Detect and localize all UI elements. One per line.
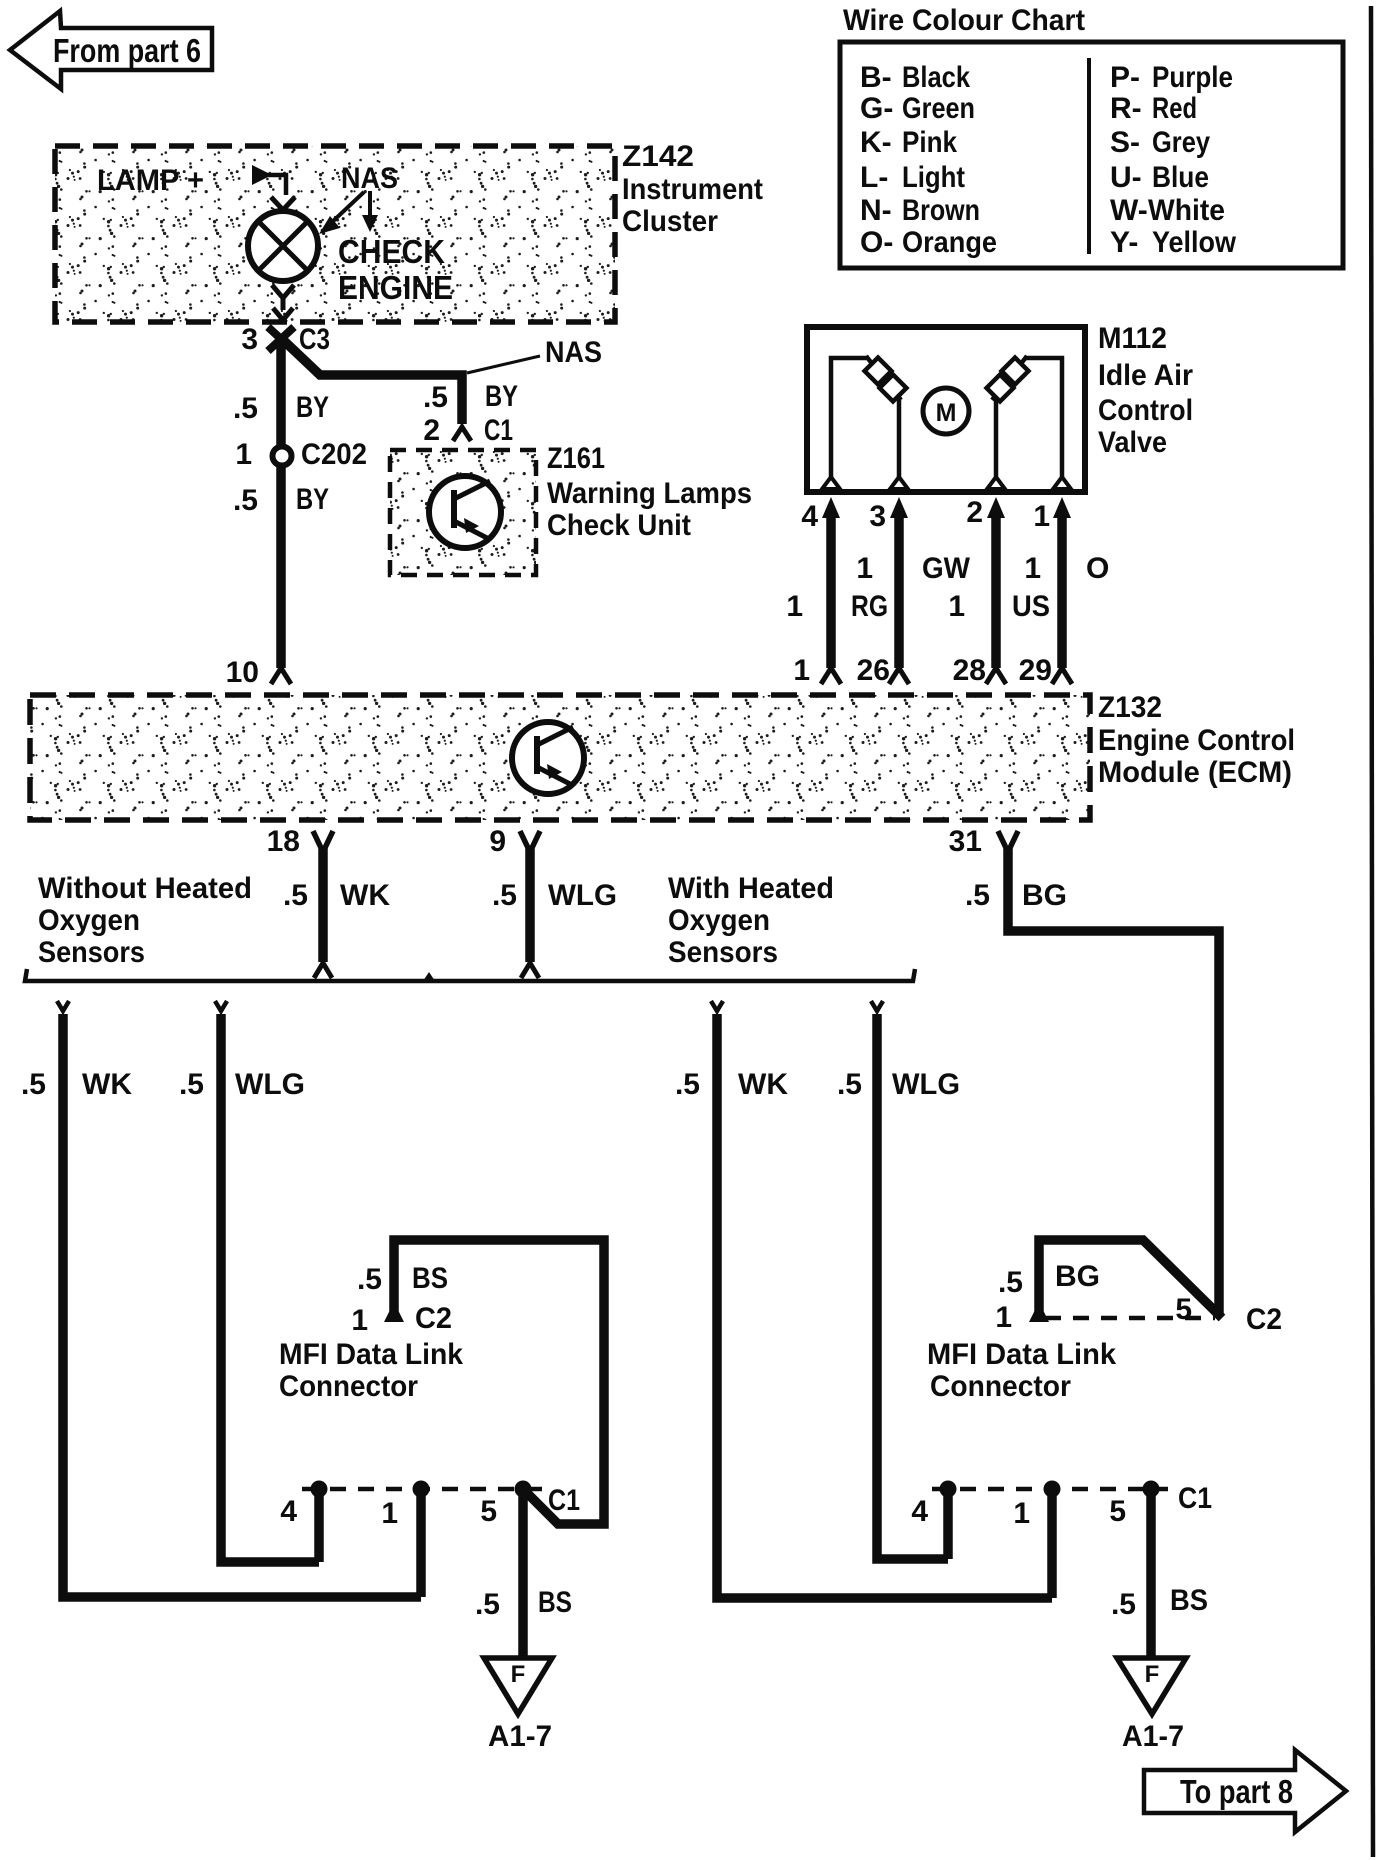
svg-text:M: M	[936, 399, 957, 427]
svg-text:Idle Air: Idle Air	[1098, 359, 1193, 392]
connector C202 pin 1	[235, 438, 367, 471]
svg-text:WLG: WLG	[548, 879, 617, 912]
svg-text:29: 29	[1019, 654, 1052, 687]
C1 left pin 4	[280, 1481, 327, 1563]
C1 right pin 1	[1013, 1481, 1060, 1599]
label MFI Data Link Connector (left)	[279, 1338, 463, 1403]
svg-text:White: White	[1148, 194, 1225, 227]
svg-text:Black: Black	[902, 61, 970, 94]
svg-text:Sensors: Sensors	[38, 936, 145, 969]
label 2 C1	[423, 414, 513, 447]
svg-text:S-: S-	[1110, 126, 1140, 159]
svg-text:CHECK: CHECK	[338, 233, 445, 270]
svg-text:9: 9	[489, 825, 506, 858]
svg-text:C202: C202	[301, 438, 367, 471]
wire size labels M112 row1	[856, 552, 1109, 585]
svg-text:Module (ECM): Module (ECM)	[1098, 756, 1292, 789]
idle air control valve M112 box	[807, 322, 1193, 492]
svg-text:1: 1	[351, 1304, 368, 1337]
svg-text:.5: .5	[998, 1266, 1023, 1299]
svg-text:BY: BY	[485, 380, 518, 413]
wire size labels M112 row2	[786, 590, 1050, 623]
svg-text:.5: .5	[475, 1588, 500, 1621]
label .5 WK (pin18)	[283, 879, 390, 912]
svg-text:Without Heated: Without Heated	[38, 872, 252, 905]
ECM pin 31	[949, 825, 1018, 858]
label .5 WK (right)	[675, 1068, 788, 1101]
svg-text:ENGINE: ENGINE	[338, 269, 453, 306]
wire O pin1 M112 to ECM pin29	[1052, 497, 1072, 684]
svg-text:18: 18	[267, 825, 300, 858]
svg-text:Control: Control	[1098, 394, 1193, 427]
svg-text:O: O	[1086, 552, 1109, 585]
svg-text:26: 26	[857, 654, 890, 687]
svg-text:.5: .5	[179, 1068, 204, 1101]
svg-text:C2: C2	[1246, 1303, 1282, 1336]
svg-text:A1-7: A1-7	[1122, 1720, 1184, 1753]
svg-text:4: 4	[911, 1495, 928, 1528]
label .5 BS (left)	[475, 1586, 572, 1621]
transistor symbol ECM	[512, 722, 584, 794]
C1 left pin 1	[381, 1481, 429, 1598]
svg-text:B-: B-	[860, 61, 892, 94]
engine control module Z132 box	[30, 691, 1295, 820]
svg-text:Red: Red	[1152, 92, 1197, 125]
svg-text:.5: .5	[357, 1263, 382, 1296]
svg-text:3: 3	[241, 323, 258, 356]
connector pin 1 C2 (left)	[351, 1302, 452, 1337]
M112 bottom pin notches	[822, 477, 1071, 489]
svg-text:BS: BS	[412, 1262, 448, 1295]
svg-text:BG: BG	[1022, 879, 1067, 912]
svg-text:Z142: Z142	[622, 140, 694, 173]
svg-text:WK: WK	[82, 1068, 132, 1101]
wire branch BY to NAS C1	[281, 338, 462, 424]
svg-text:K-: K-	[860, 126, 892, 159]
svg-text:Purple: Purple	[1152, 61, 1233, 94]
svg-text:1: 1	[381, 1497, 398, 1530]
svg-text:BS: BS	[538, 1586, 572, 1619]
label MFI Data Link Connector (right)	[927, 1338, 1116, 1403]
svg-text:1: 1	[1024, 552, 1041, 585]
label .5 BG (pin31)	[965, 879, 1067, 912]
svg-text:RG: RG	[851, 590, 888, 623]
svg-text:L-: L-	[860, 161, 888, 194]
svg-text:Blue: Blue	[1152, 161, 1209, 194]
svg-text:Connector: Connector	[279, 1370, 418, 1403]
wire GW pin3 M112 to ECM pin26	[889, 497, 909, 684]
svg-text:BY: BY	[296, 483, 329, 516]
ECM pin 10	[226, 656, 291, 689]
svg-text:2: 2	[423, 414, 440, 447]
svg-text:2: 2	[966, 496, 983, 529]
label NAS callout	[467, 336, 602, 373]
svg-text:Engine Control: Engine Control	[1098, 724, 1295, 757]
svg-text:Z132: Z132	[1098, 691, 1162, 724]
ECM pin 9	[489, 825, 540, 858]
wire RG pin4 M112 to ECM pin1	[821, 497, 841, 684]
svg-text:1: 1	[786, 590, 803, 623]
wire WLG left drop	[215, 1001, 319, 1562]
svg-text:Cluster: Cluster	[622, 205, 718, 238]
svg-text:Warning Lamps: Warning Lamps	[547, 477, 752, 510]
connector C1 right dashed strip	[932, 1487, 1168, 1492]
svg-text:1: 1	[793, 654, 810, 687]
svg-text:U-: U-	[1110, 161, 1142, 194]
connector pin 1 C2 (right)	[995, 1293, 1282, 1336]
transistor symbol Z161	[429, 476, 501, 548]
svg-text:MFI Data Link: MFI Data Link	[279, 1338, 463, 1371]
label .5 BG (right C2)	[998, 1260, 1100, 1299]
warning lamps check unit Z161 box	[390, 442, 752, 575]
wire BS loop left connector	[384, 1240, 604, 1524]
wire BG loop right connector	[1029, 1240, 1222, 1322]
svg-text:With Heated: With Heated	[668, 872, 834, 905]
svg-text:Check Unit: Check Unit	[547, 509, 691, 542]
svg-text:.5: .5	[21, 1068, 46, 1101]
lamp CHECK ENGINE	[248, 211, 318, 281]
svg-text:5: 5	[1109, 1495, 1126, 1528]
svg-text:Oxygen: Oxygen	[668, 904, 770, 937]
svg-text:F: F	[511, 1661, 526, 1688]
svg-text:.5: .5	[837, 1068, 862, 1101]
M112 pin labels	[801, 496, 1050, 533]
svg-text:F: F	[1145, 1661, 1160, 1688]
connector C1 left dashed strip	[302, 1487, 545, 1492]
svg-text:C1: C1	[1178, 1482, 1212, 1515]
svg-text:From part 6: From part 6	[53, 32, 201, 69]
label .5 WLG (pin9)	[492, 879, 617, 912]
M112 internal winding left	[831, 356, 906, 483]
svg-text:GW: GW	[922, 552, 971, 585]
page right border line	[1371, 6, 1373, 1857]
svg-text:.5: .5	[965, 879, 990, 912]
wire WK left drop	[57, 1001, 421, 1597]
Wire Colour Chart	[840, 4, 1343, 268]
svg-text:G-: G-	[860, 92, 893, 125]
svg-text:1: 1	[235, 438, 252, 471]
instrument cluster Z142 box	[55, 140, 763, 322]
wire BY from C3 to ECM pin 10	[276, 338, 286, 668]
svg-text:WK: WK	[340, 879, 390, 912]
svg-text:Light: Light	[902, 161, 965, 194]
svg-text:P-: P-	[1110, 61, 1140, 94]
connector C3 pin 3	[241, 323, 330, 356]
C1 right pin 5	[1109, 1481, 1159, 1665]
svg-text:C1: C1	[484, 414, 513, 447]
wire from LAMP+ to lamp	[252, 165, 295, 210]
wire BG from ECM pin 31	[1008, 848, 1219, 1314]
svg-text:N-: N-	[860, 194, 892, 227]
ground triangle F right A1-7	[1117, 1658, 1186, 1753]
svg-text:WLG: WLG	[235, 1068, 305, 1101]
svg-text:Y-: Y-	[1110, 226, 1138, 259]
To part 8 arrow	[1144, 1750, 1346, 1832]
svg-text:Yellow: Yellow	[1152, 226, 1237, 259]
svg-text:W-: W-	[1110, 194, 1148, 227]
connector C2 right dashed strip	[1045, 1316, 1215, 1321]
label .5 WK (left)	[21, 1068, 132, 1101]
connector pin 2 C1 fork	[453, 427, 471, 441]
svg-text:Connector: Connector	[930, 1370, 1071, 1403]
svg-text:1: 1	[995, 1301, 1012, 1334]
wire WK from ECM pin 18	[314, 848, 332, 978]
svg-text:MFI Data Link: MFI Data Link	[927, 1338, 1116, 1371]
svg-text:Wire Colour Chart: Wire Colour Chart	[843, 4, 1085, 37]
C1 left pin 5	[480, 1481, 531, 1665]
svg-text:WLG: WLG	[892, 1068, 960, 1101]
svg-text:.5: .5	[283, 879, 308, 912]
svg-text:LAMP +: LAMP +	[97, 164, 204, 197]
label With Heated Oxygen Sensors	[668, 872, 834, 969]
label .5 BS (left C2)	[357, 1262, 448, 1296]
svg-text:Green: Green	[902, 92, 975, 125]
label .5 BY (upper)	[233, 391, 329, 425]
svg-text:Grey: Grey	[1152, 126, 1210, 159]
label Without Heated Oxygen Sensors	[38, 872, 252, 969]
svg-text:Instrument: Instrument	[622, 173, 763, 206]
svg-text:5: 5	[480, 1495, 497, 1528]
svg-text:Orange: Orange	[902, 226, 997, 259]
svg-text:31: 31	[949, 825, 982, 858]
svg-text:1: 1	[856, 552, 873, 585]
svg-text:4: 4	[801, 500, 818, 533]
svg-text:NAS: NAS	[341, 162, 398, 195]
NAS pointer arrows	[319, 191, 378, 234]
svg-text:.5: .5	[233, 484, 258, 517]
svg-text:R-: R-	[1110, 92, 1142, 125]
label .5 BY (lower)	[233, 483, 329, 517]
svg-text:.5: .5	[1111, 1588, 1136, 1621]
label .5 BY (branch)	[423, 380, 518, 414]
label .5 WLG (right)	[837, 1068, 960, 1101]
svg-text:3: 3	[869, 500, 886, 533]
svg-text:28: 28	[953, 654, 986, 687]
svg-text:Oxygen: Oxygen	[38, 904, 140, 937]
svg-text:4: 4	[280, 1495, 297, 1528]
svg-text:Brown: Brown	[902, 194, 980, 227]
From part 6 arrow	[10, 11, 212, 89]
C1 right pin 4	[911, 1481, 956, 1560]
svg-text:.5: .5	[423, 381, 448, 414]
svg-text:.5: .5	[492, 879, 517, 912]
svg-text:M112: M112	[1098, 322, 1167, 355]
ECM top pin labels	[793, 654, 1052, 687]
svg-text:Z161: Z161	[547, 442, 605, 475]
svg-text:To part 8: To part 8	[1180, 1773, 1293, 1810]
M112 internal winding right	[987, 356, 1062, 483]
label .5 BS (right)	[1111, 1584, 1208, 1621]
svg-text:NAS: NAS	[545, 336, 602, 369]
wire WLG right drop	[871, 1001, 948, 1559]
svg-text:Sensors: Sensors	[668, 936, 778, 969]
svg-text:BG: BG	[1055, 1260, 1100, 1293]
svg-text:.5: .5	[675, 1068, 700, 1101]
svg-text:BS: BS	[1170, 1584, 1208, 1617]
ground triangle F left A1-7	[484, 1658, 552, 1753]
wire US pin2 M112 to ECM pin28	[986, 497, 1006, 684]
svg-text:O-: O-	[860, 226, 893, 259]
svg-text:1: 1	[1013, 1497, 1030, 1530]
svg-text:US: US	[1012, 590, 1050, 623]
svg-text:C1: C1	[548, 1484, 580, 1517]
svg-text:Valve: Valve	[1098, 426, 1167, 459]
bracket line	[25, 969, 915, 981]
label .5 WLG (left)	[179, 1068, 305, 1101]
wire WLG from ECM pin 9	[521, 848, 539, 978]
svg-text:1: 1	[948, 590, 965, 623]
svg-text:BY: BY	[296, 391, 329, 424]
svg-text:C2: C2	[415, 1302, 452, 1335]
ECM pin 18	[267, 825, 333, 858]
svg-text:Pink: Pink	[902, 126, 957, 159]
svg-text:A1-7: A1-7	[488, 1720, 552, 1753]
svg-text:1: 1	[1033, 500, 1050, 533]
svg-text:.5: .5	[233, 392, 258, 425]
svg-text:10: 10	[226, 656, 259, 689]
svg-text:5: 5	[1175, 1293, 1192, 1326]
wire lamp to connector C3	[272, 285, 294, 320]
svg-text:WK: WK	[738, 1068, 788, 1101]
wire WK right drop	[711, 1001, 1052, 1598]
svg-text:C3: C3	[299, 323, 330, 356]
M112 motor symbol	[923, 388, 969, 434]
